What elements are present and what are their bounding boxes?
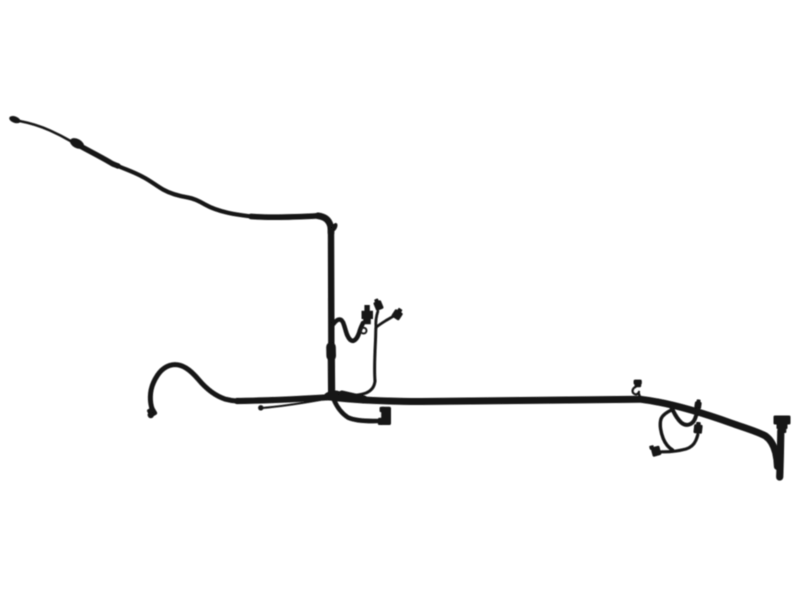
hook clip near x=637 xyxy=(634,380,642,385)
connector E head xyxy=(391,307,405,321)
wire W1 sleeved section xyxy=(82,147,118,166)
retainer ring below connector C xyxy=(361,328,367,334)
thin branch F drop to junction xyxy=(340,381,375,396)
connector G stub above main line xyxy=(694,399,702,409)
corner nub xyxy=(330,222,339,233)
hook clip stem xyxy=(639,394,641,400)
elbow connector body xyxy=(381,407,391,425)
main line left of junction xyxy=(237,397,331,401)
hook clip curl xyxy=(633,387,639,395)
left branch arc xyxy=(150,365,237,410)
connector D head xyxy=(372,298,384,312)
tape wrap on main line after junction xyxy=(342,395,364,400)
lower branch descending wire xyxy=(660,410,672,451)
lower link wire xyxy=(662,435,698,452)
wire W1 corner bend xyxy=(318,216,331,233)
branch to elbow connector xyxy=(334,400,377,421)
connector A head xyxy=(649,444,662,458)
right connector collar xyxy=(777,424,788,430)
connector B head xyxy=(693,422,703,434)
main line steep descent at right xyxy=(766,436,778,467)
right connector cap xyxy=(774,416,791,425)
trunk lower sleeve xyxy=(328,355,336,393)
junction blob xyxy=(323,389,343,401)
trunk vertical harness xyxy=(328,231,335,394)
branch S-curve to connector C xyxy=(333,319,363,340)
wire W1 tip terminal xyxy=(8,115,21,125)
left branch tip connector xyxy=(146,406,158,418)
main line right section xyxy=(331,397,766,436)
wire W1 splice collar xyxy=(68,136,86,151)
thin branch F riser xyxy=(375,328,376,382)
elbow connector foot xyxy=(378,418,386,425)
thin stub wire with eyelet xyxy=(262,400,320,408)
wire W1 wavy mid section xyxy=(118,166,251,216)
connector C body xyxy=(362,305,374,324)
thin branch F left fork xyxy=(376,312,378,328)
wire W1 horizontal run to corner xyxy=(251,216,318,217)
trunk collar xyxy=(326,347,336,356)
right vertical tube xyxy=(780,431,781,477)
wire W1 thin lead xyxy=(20,121,72,141)
thin branch F right fork xyxy=(376,316,394,328)
slack U-loop under main line xyxy=(672,408,698,425)
